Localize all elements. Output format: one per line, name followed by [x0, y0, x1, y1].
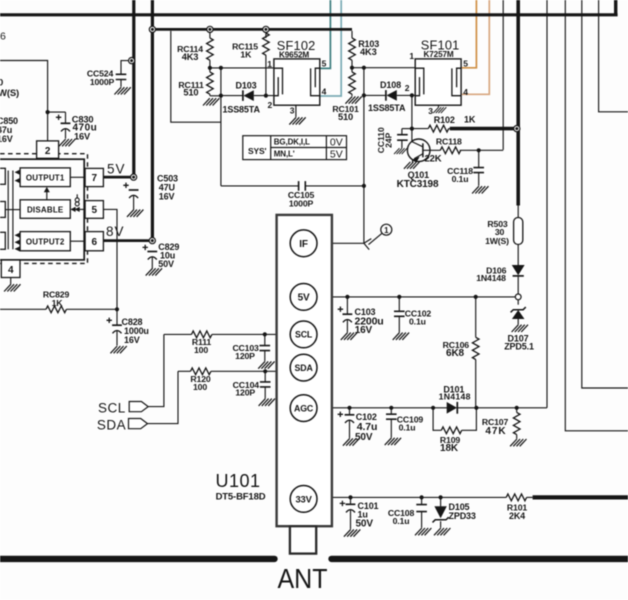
- svg-text:5V: 5V: [107, 162, 126, 177]
- svg-text:1SS85TA: 1SS85TA: [368, 103, 406, 113]
- svg-text:2: 2: [45, 146, 51, 157]
- svg-text:K7257M: K7257M: [424, 50, 454, 59]
- svg-text:5: 5: [322, 58, 327, 68]
- svg-text:510: 510: [338, 112, 353, 122]
- svg-text:16V: 16V: [124, 335, 140, 345]
- svg-text:4: 4: [463, 87, 468, 97]
- svg-text:1000P: 1000P: [289, 198, 314, 208]
- svg-text:7: 7: [91, 173, 97, 184]
- svg-text:16V: 16V: [0, 134, 13, 144]
- svg-text:IF: IF: [299, 239, 308, 250]
- svg-text:SDA: SDA: [97, 418, 126, 433]
- svg-text:RC118: RC118: [436, 137, 462, 147]
- svg-text:SCL: SCL: [295, 330, 313, 340]
- svg-text:DISABLE: DISABLE: [27, 205, 64, 214]
- svg-text:100: 100: [194, 345, 208, 355]
- svg-text:510: 510: [183, 87, 198, 97]
- svg-text:0.1u: 0.1u: [452, 174, 469, 184]
- svg-text:5: 5: [463, 58, 468, 68]
- svg-text:2K4: 2K4: [509, 511, 525, 521]
- svg-text:1: 1: [384, 226, 389, 235]
- svg-text:22K: 22K: [425, 153, 442, 164]
- svg-text:DT5-BF18D: DT5-BF18D: [216, 491, 266, 502]
- svg-text:120P: 120P: [235, 387, 255, 397]
- svg-text:50V: 50V: [158, 259, 174, 269]
- svg-text:50V: 50V: [355, 432, 373, 443]
- svg-text:0.1u: 0.1u: [409, 317, 426, 327]
- svg-text:SYS': SYS': [248, 146, 267, 156]
- svg-text:50V: 50V: [356, 518, 374, 529]
- svg-text:4K3: 4K3: [360, 47, 377, 57]
- svg-text:1: 1: [409, 51, 414, 61]
- svg-text:4: 4: [8, 265, 14, 276]
- svg-text:1SS85TA: 1SS85TA: [223, 105, 261, 115]
- svg-text:16V: 16V: [159, 192, 175, 202]
- svg-text:SDA: SDA: [295, 363, 314, 373]
- svg-text:16V: 16V: [355, 325, 373, 336]
- svg-text:0V: 0V: [330, 136, 343, 148]
- svg-text:0.1u: 0.1u: [399, 422, 416, 432]
- svg-text:47K: 47K: [485, 426, 506, 437]
- svg-text:100: 100: [193, 382, 207, 392]
- svg-text:120P: 120P: [235, 351, 255, 361]
- svg-text:6: 6: [0, 31, 6, 43]
- svg-text:3: 3: [428, 106, 433, 116]
- svg-text:6K8: 6K8: [446, 348, 464, 359]
- svg-text:1: 1: [267, 59, 272, 69]
- svg-text:1K: 1K: [52, 298, 64, 308]
- svg-text:4K3: 4K3: [182, 52, 199, 62]
- svg-text:1N4148: 1N4148: [439, 392, 471, 402]
- svg-text:K9652M: K9652M: [279, 51, 309, 60]
- svg-text:8V: 8V: [106, 224, 125, 239]
- svg-text:OUTPUT1: OUTPUT1: [26, 174, 65, 183]
- svg-text:33V: 33V: [295, 493, 312, 504]
- svg-text:5V: 5V: [298, 293, 310, 304]
- svg-text:6: 6: [91, 237, 97, 248]
- svg-text:SCL: SCL: [98, 400, 126, 415]
- svg-text:3: 3: [290, 106, 295, 116]
- svg-text:OUTPUT2: OUTPUT2: [26, 238, 65, 247]
- svg-text:16V: 16V: [74, 132, 91, 142]
- svg-text:1K: 1K: [464, 115, 476, 125]
- svg-text:BG,DK,I,L: BG,DK,I,L: [274, 138, 310, 147]
- svg-text:1W(S): 1W(S): [485, 236, 509, 246]
- svg-text:4: 4: [322, 86, 327, 96]
- svg-text:AGC: AGC: [294, 403, 314, 413]
- svg-text:U101: U101: [215, 471, 260, 491]
- svg-text:5V: 5V: [330, 149, 343, 161]
- svg-text:2: 2: [268, 100, 273, 110]
- svg-text:D108: D108: [380, 80, 401, 90]
- svg-text:0.1u: 0.1u: [393, 516, 410, 526]
- svg-text:ZPD5.1: ZPD5.1: [504, 341, 534, 351]
- svg-text:KTC3198: KTC3198: [397, 179, 439, 190]
- svg-text:D103: D103: [236, 81, 257, 91]
- svg-text:24P: 24P: [384, 132, 394, 147]
- svg-text:1000P: 1000P: [90, 77, 115, 87]
- svg-text:ANT: ANT: [278, 563, 328, 594]
- svg-text:R102: R102: [434, 115, 455, 125]
- svg-text:2: 2: [405, 83, 410, 93]
- svg-text:0: 0: [0, 78, 3, 89]
- svg-text:ZPD33: ZPD33: [449, 511, 476, 521]
- svg-text:1K: 1K: [240, 49, 252, 59]
- svg-text:W(S): W(S): [0, 88, 19, 99]
- svg-text:18K: 18K: [440, 443, 459, 454]
- svg-text:1N4148: 1N4148: [476, 273, 506, 283]
- svg-text:5: 5: [91, 205, 97, 216]
- svg-text:MN,L': MN,L': [274, 150, 295, 159]
